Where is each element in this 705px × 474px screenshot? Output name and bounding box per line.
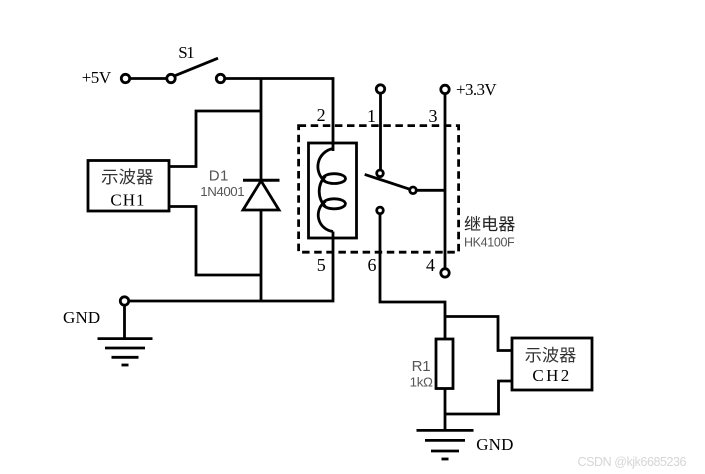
label oscilloscope CH1 chinese [102,168,153,184]
relay common contact circle [410,187,417,194]
label relay chinese [465,216,515,232]
svg-text:R1: R1 [412,358,431,375]
wire R1 to ground [444,389,447,431]
relay NC contact circle [377,170,384,177]
wire common contact to pins 3-4 line [416,189,445,192]
svg-text:+3.3V: +3.3V [456,80,497,99]
node GND terminal [120,297,128,305]
wire R1 bottom to CH2 lower [445,381,512,414]
wire CH1 lower to bottom junction [169,207,261,276]
svg-text:CSDN @kjk6685236: CSDN @kjk6685236 [578,455,687,469]
relay pin 1 terminal [376,85,384,93]
wire junction to diode D1 cathode [260,79,263,181]
svg-text:CH1: CH1 [110,190,144,209]
svg-text:1kΩ: 1kΩ [410,375,433,390]
label oscilloscope CH2 chinese [525,347,576,363]
switch S1 pole contact [167,74,175,82]
relay coil winding arc 2 [319,176,325,207]
diode D1 cathode bar [243,179,280,182]
svg-text:GND: GND [476,435,513,454]
svg-text:GND: GND [63,308,100,327]
relay pin 3 terminal +3.3V [441,85,449,93]
wire branch to CH2 upper [445,317,512,351]
wire pin 3 to pin 4 [444,94,447,269]
relay coil winding arc 3 [318,201,333,231]
wire GND terminal drop [123,305,126,338]
wire diode D1 anode to ground rail [260,211,263,302]
svg-text:+5V: +5V [82,68,112,87]
resistor R1 body [436,339,453,389]
svg-text:4: 4 [426,255,435,275]
node +5V terminal [121,74,129,82]
relay coil rectangle [309,143,357,238]
relay coil windings [318,149,333,182]
relay pin 4 terminal [441,269,449,277]
svg-text:CH2: CH2 [532,366,569,385]
diode D1 triangle [243,181,279,210]
wire branch to CH1 upper [169,111,261,167]
svg-text:1N4001: 1N4001 [200,184,244,199]
relay dashed outline [299,126,459,253]
switch S1 throw contact [216,74,224,82]
svg-text:5: 5 [317,255,326,275]
relay coil loop 1 [323,174,346,184]
relay pin 6 NO contact circle [377,207,384,214]
svg-text:2: 2 [317,105,326,125]
wire pin 6 down to R1 [380,214,445,339]
wire +5V terminal to switch pole [130,77,167,80]
ground symbol left [98,339,153,365]
svg-text:3: 3 [429,106,438,126]
wire switch to relay coil pin 2 [225,79,333,152]
oscilloscope CH2 box [512,338,592,390]
svg-text:S1: S1 [178,43,195,62]
svg-text:HK4100F: HK4100F [464,236,515,250]
svg-text:6: 6 [368,255,377,275]
ground symbol right [417,430,474,459]
oscilloscope CH1 box [88,161,169,212]
relay armature blade [365,174,410,189]
switch S1 blade [174,58,218,76]
svg-text:D1: D1 [209,168,229,185]
wire ground rail to relay coil pin 5 [129,232,333,302]
wire pin 1 to NC contact [379,93,382,170]
svg-text:1: 1 [367,106,376,126]
relay coil loop 2 [323,199,345,209]
